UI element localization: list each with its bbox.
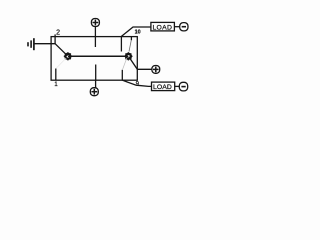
- linkage bar between wipers: [68, 55, 128, 57]
- terminal T4 (+) right: [152, 66, 160, 74]
- wiper W2 (right knurled wheel): [124, 52, 132, 60]
- pin 10 wiper feed stub: [130, 37, 132, 41]
- pin 1 inner stub: [55, 69, 57, 81]
- pin 2: [54, 34, 56, 44]
- load L2 box: [152, 82, 175, 91]
- terminal T1 (+) top: [91, 19, 99, 37]
- battery B1: [28, 38, 34, 50]
- load L1 box: [151, 22, 175, 31]
- wiper arm from pin 10 stub to wiper W2: [129, 41, 131, 52]
- terminal T3 (+) bottom: [90, 80, 98, 96]
- svg-text:10: 10: [135, 29, 141, 35]
- wiper arm from pin 2 to wiper W1: [55, 44, 67, 56]
- terminal T2 (-): [180, 23, 188, 31]
- wire load L1 to terminal T2: [174, 26, 179, 28]
- svg-text:2: 2: [56, 29, 60, 36]
- terminal T5 (-): [179, 82, 187, 91]
- wire pin 9 to load L2: [122, 80, 151, 86]
- bottom contact stub (to + terminal T3): [95, 65, 97, 81]
- faint arm wiper W1 to pin 1 stub: [56, 58, 66, 68]
- faint arm wiper W2 to bottom right stub: [123, 58, 127, 69]
- top contact stub (to + terminal T1): [94, 37, 96, 47]
- svg-text:LOAD: LOAD: [153, 84, 172, 91]
- switch box outline: [51, 37, 137, 81]
- wire load L2 to terminal T5: [175, 85, 180, 87]
- wire wiper W2 to terminal T4: [129, 57, 152, 69]
- top contact stub (pin 10 inner lead): [120, 37, 122, 52]
- wire battery to pin 2: [34, 43, 55, 45]
- bottom contact stub (right): [121, 70, 123, 80]
- svg-text:LOAD: LOAD: [152, 24, 172, 31]
- wiper W1 (left knurled wheel): [64, 52, 72, 60]
- wire pin 10 to load L1: [121, 27, 150, 36]
